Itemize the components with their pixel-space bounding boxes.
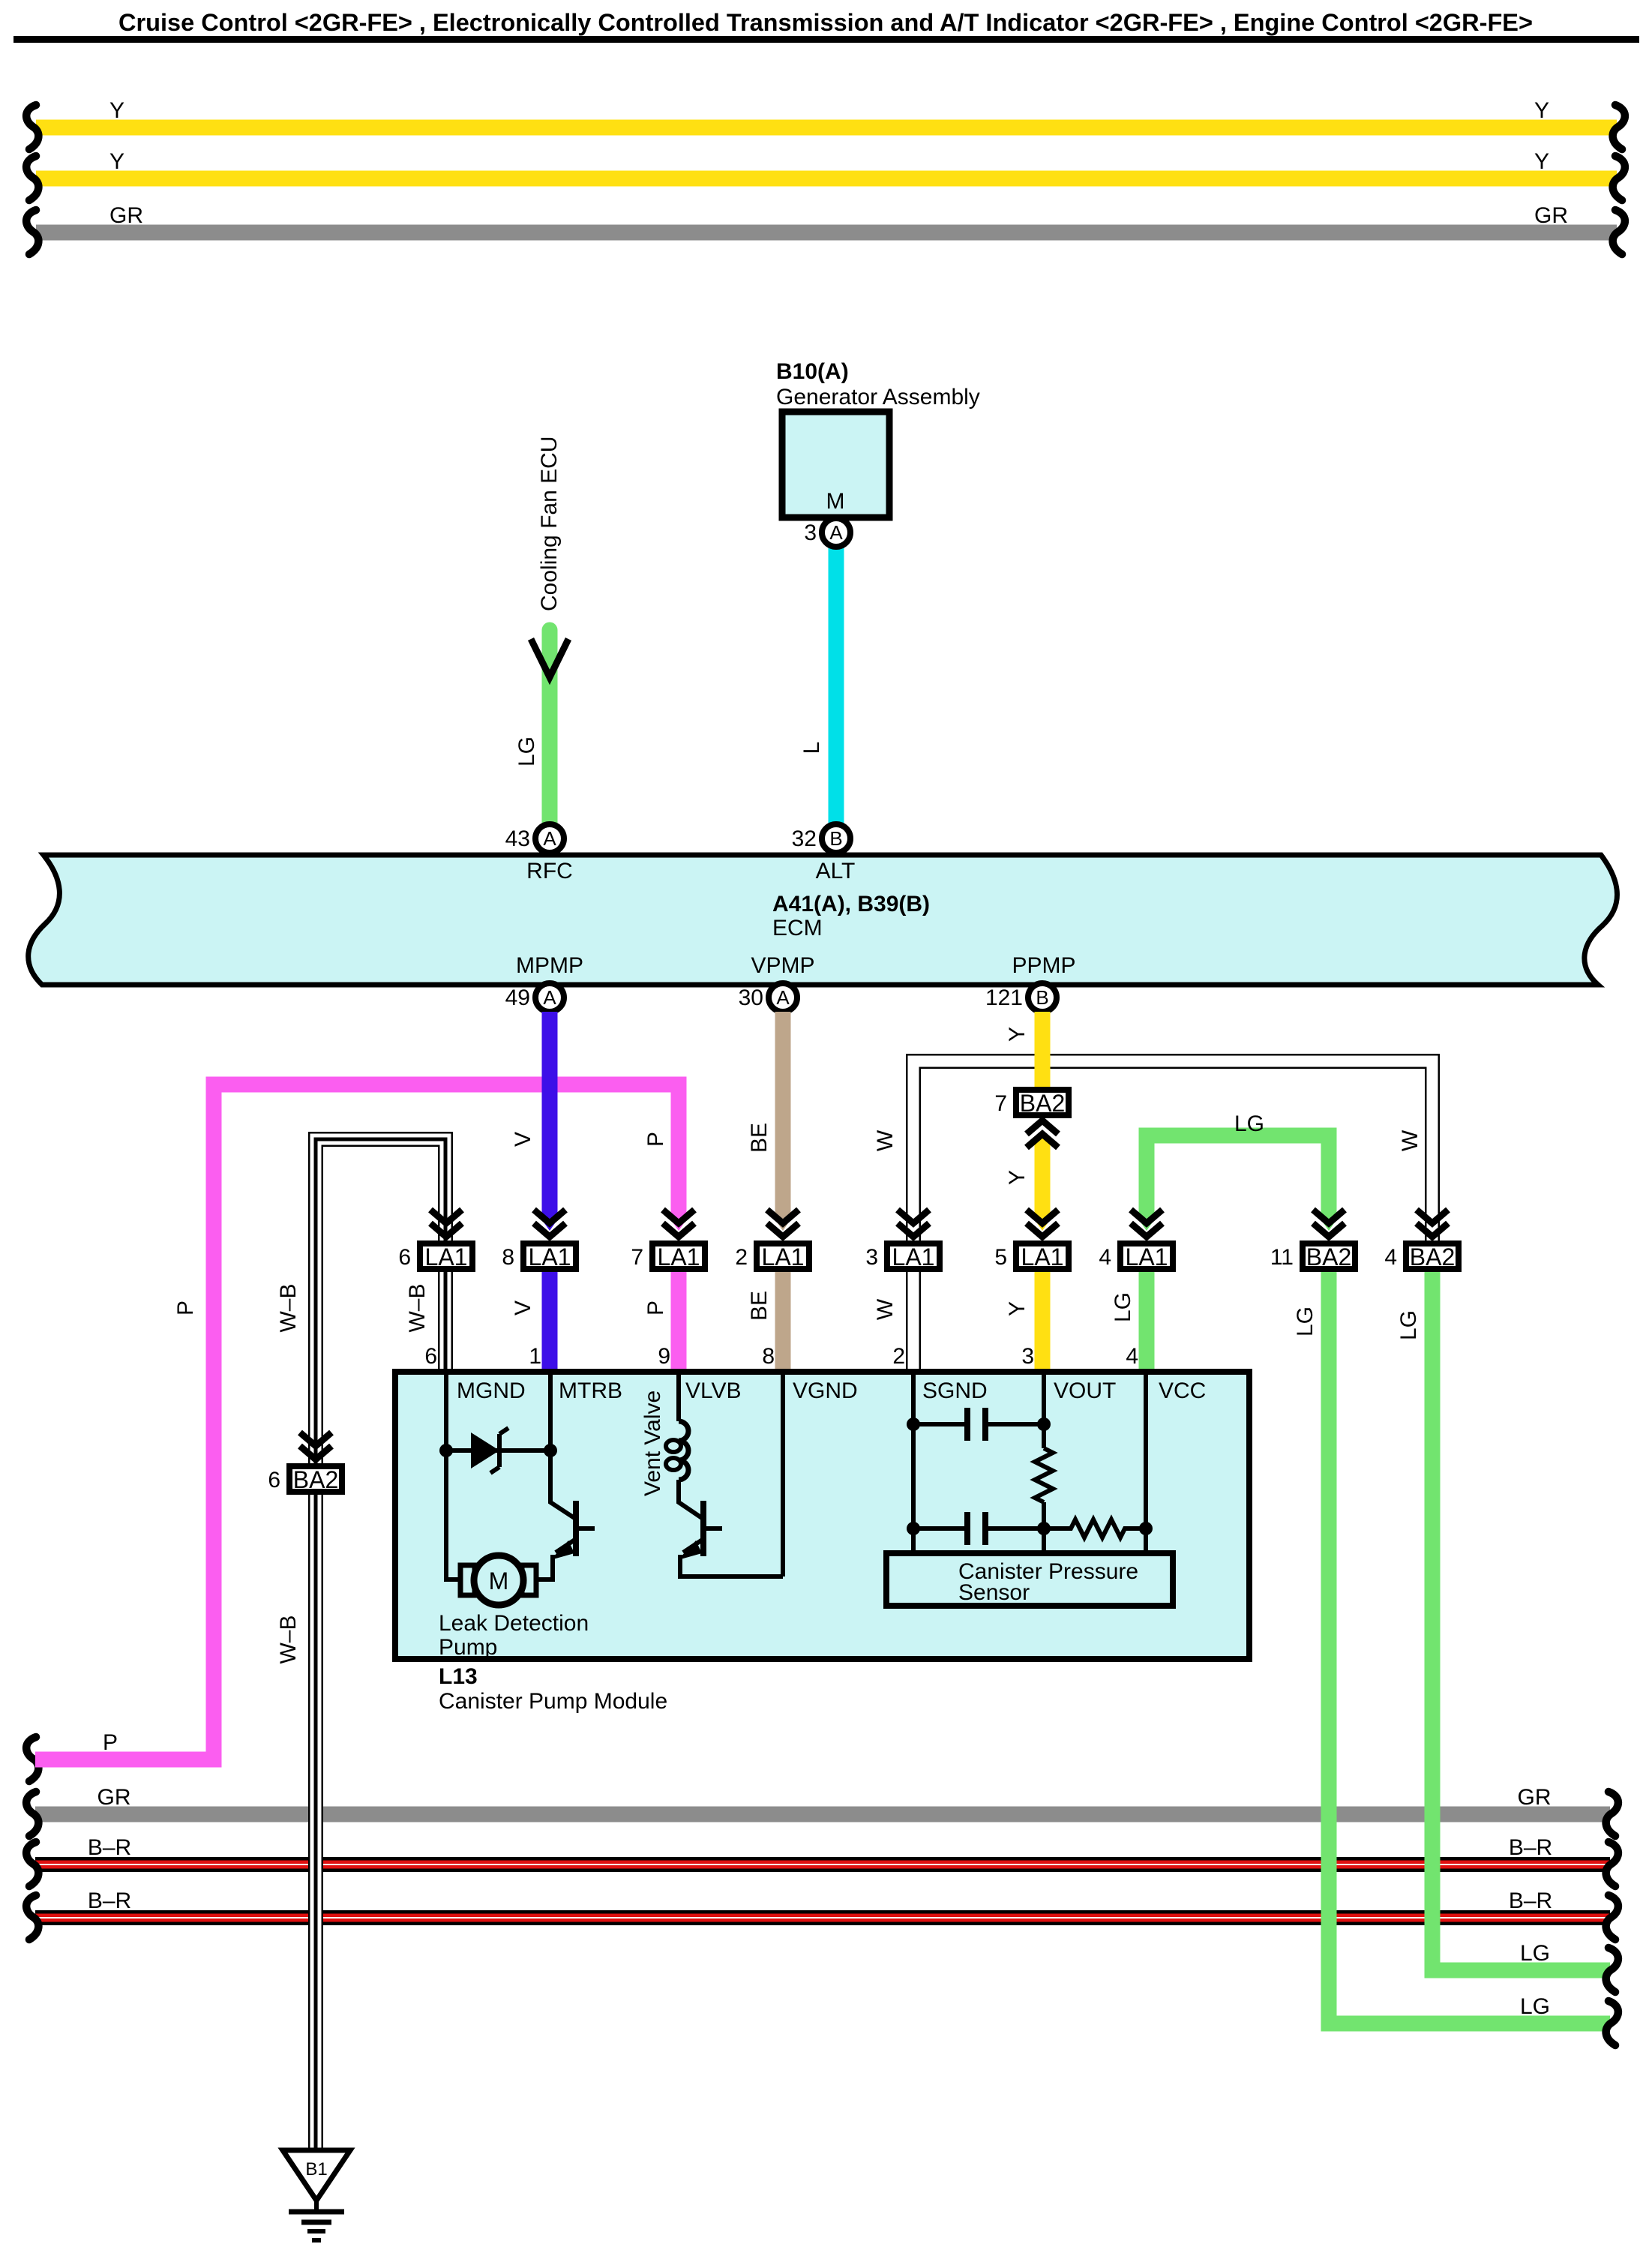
connector 11 BA2 bbox=[1303, 1243, 1355, 1269]
svg-text:Canister Pump Module: Canister Pump Module bbox=[439, 1689, 667, 1714]
transistor Q1 (motor driver) bbox=[573, 1501, 579, 1556]
svg-text:BA2: BA2 bbox=[1020, 1090, 1065, 1117]
leak detection pump motor M bbox=[460, 1565, 475, 1595]
svg-text:Leak Detection: Leak Detection bbox=[439, 1611, 589, 1636]
svg-text:P: P bbox=[103, 1730, 118, 1755]
svg-text:B: B bbox=[829, 827, 842, 850]
svg-text:6: 6 bbox=[424, 1344, 437, 1369]
svg-text:VLVB: VLVB bbox=[685, 1378, 742, 1403]
svg-text:121: 121 bbox=[985, 985, 1023, 1010]
svg-text:LG: LG bbox=[1520, 1994, 1550, 2019]
svg-text:3: 3 bbox=[1021, 1344, 1034, 1369]
svg-text:Generator Assembly: Generator Assembly bbox=[776, 385, 980, 409]
arrow chevron on cooling fan wire bbox=[531, 639, 568, 677]
junction MGND-diode bbox=[439, 1444, 453, 1457]
svg-text:LA1: LA1 bbox=[425, 1243, 468, 1270]
svg-text:A: A bbox=[543, 827, 556, 850]
svg-text:Y: Y bbox=[109, 149, 124, 174]
break symbol right GR bus bbox=[1613, 210, 1625, 254]
svg-text:2: 2 bbox=[735, 1245, 748, 1270]
svg-text:VGND: VGND bbox=[793, 1378, 858, 1403]
chevron above 8 LA1 bbox=[534, 1210, 565, 1223]
svg-text:5: 5 bbox=[994, 1245, 1007, 1270]
break symbol left P bus bbox=[26, 1737, 38, 1781]
break symbol left Y bus bbox=[26, 105, 38, 149]
wire VLVB internal bbox=[676, 1375, 681, 1421]
svg-text:30: 30 bbox=[739, 985, 763, 1010]
svg-text:MPMP: MPMP bbox=[516, 953, 583, 978]
svg-text:BE: BE bbox=[747, 1291, 772, 1321]
wire Y (yellow) PPMP to VOUT bbox=[1035, 1012, 1051, 1087]
canister pump module L13 box bbox=[395, 1372, 1249, 1659]
junction SGND cap1 bbox=[907, 1417, 920, 1431]
svg-text:W–B: W–B bbox=[276, 1615, 301, 1663]
svg-text:Cooling Fan ECU: Cooling Fan ECU bbox=[537, 436, 562, 611]
junction VOUT resistor row bbox=[1037, 1522, 1051, 1535]
svg-text:MTRB: MTRB bbox=[559, 1378, 622, 1403]
svg-text:LA1: LA1 bbox=[529, 1243, 571, 1270]
svg-text:V: V bbox=[511, 1132, 535, 1147]
svg-text:W: W bbox=[1398, 1129, 1423, 1151]
break symbol left Y bus bbox=[26, 156, 38, 200]
wire LG from 4 BA2 to bottom bus bbox=[1432, 1272, 1610, 1970]
svg-text:LA1: LA1 bbox=[892, 1243, 935, 1270]
svg-text:11: 11 bbox=[1270, 1245, 1294, 1270]
svg-text:GR: GR bbox=[97, 1785, 131, 1810]
svg-text:Sensor: Sensor bbox=[958, 1580, 1030, 1605]
connector 6 BA2 bbox=[289, 1466, 342, 1492]
wire W below 3 LA1 bbox=[906, 1272, 921, 1375]
svg-text:P: P bbox=[173, 1300, 198, 1315]
svg-text:Y: Y bbox=[1534, 98, 1549, 123]
svg-text:B1: B1 bbox=[305, 2159, 327, 2179]
svg-text:RFC: RFC bbox=[526, 859, 573, 883]
svg-text:M: M bbox=[826, 489, 845, 514]
transistor Q2 (vent valve driver) bbox=[700, 1501, 706, 1556]
connector 7 BA2 bbox=[1016, 1090, 1069, 1115]
svg-text:B: B bbox=[1036, 986, 1048, 1009]
chevron above 4 LA1 bbox=[1131, 1210, 1162, 1223]
generator assembly B10(A) box bbox=[782, 412, 889, 517]
connector pin 49 (A) MPMP bbox=[535, 983, 564, 1012]
svg-text:BA2: BA2 bbox=[293, 1466, 338, 1493]
svg-text:A: A bbox=[829, 521, 843, 544]
connector pin 30 (A) VPMP bbox=[769, 983, 797, 1012]
wire diode link bbox=[446, 1448, 550, 1453]
wire P (pink) routing: bus to VLVB bbox=[35, 1084, 679, 1759]
chevron below 7 BA2 bbox=[1027, 1120, 1058, 1134]
connector pin 43 (A) RFC bbox=[535, 824, 564, 853]
wire bus Y top-1 bbox=[36, 120, 1617, 136]
connector 3 LA1 bbox=[887, 1243, 940, 1269]
svg-text:4: 4 bbox=[1099, 1245, 1111, 1270]
svg-text:VOUT: VOUT bbox=[1054, 1378, 1116, 1403]
chevron above 6 BA2 bbox=[300, 1432, 331, 1446]
svg-text:LG: LG bbox=[1520, 1941, 1550, 1966]
svg-text:3: 3 bbox=[865, 1245, 878, 1270]
svg-text:LG: LG bbox=[1293, 1306, 1318, 1336]
svg-text:GR: GR bbox=[109, 203, 143, 228]
connector 2 LA1 bbox=[757, 1243, 809, 1269]
svg-text:8: 8 bbox=[762, 1344, 775, 1369]
svg-text:ECM: ECM bbox=[772, 916, 823, 940]
wire LG from 11 BA2 to bottom bus bbox=[1329, 1272, 1610, 2023]
svg-text:BA2: BA2 bbox=[1306, 1243, 1351, 1270]
svg-text:B–R: B–R bbox=[1509, 1888, 1552, 1913]
svg-text:L: L bbox=[799, 742, 824, 754]
svg-text:MGND: MGND bbox=[457, 1378, 526, 1403]
svg-text:LG: LG bbox=[1234, 1111, 1264, 1136]
wire V (violet) MPMP to MTRB bbox=[542, 1012, 558, 1219]
wire bus GR top bbox=[36, 225, 1617, 241]
svg-text:LG: LG bbox=[1111, 1292, 1135, 1322]
svg-text:2: 2 bbox=[892, 1344, 905, 1369]
svg-text:ALT: ALT bbox=[816, 859, 856, 883]
svg-text:P: P bbox=[643, 1300, 668, 1315]
wire W loop SGND to 4 BA2 bbox=[913, 1061, 1432, 1240]
chevron above 3 LA1 bbox=[898, 1210, 929, 1223]
capacitor C1 bbox=[913, 1422, 1044, 1426]
connector pin 3 (A) generator bbox=[822, 518, 850, 547]
junction VCC resistor row bbox=[1139, 1522, 1153, 1535]
capacitor C2 bbox=[913, 1526, 1044, 1531]
svg-text:V: V bbox=[511, 1300, 535, 1315]
svg-text:LA1: LA1 bbox=[1021, 1243, 1064, 1270]
svg-text:VCC: VCC bbox=[1159, 1378, 1206, 1403]
wire VGND internal bbox=[781, 1375, 785, 1576]
svg-text:LA1: LA1 bbox=[762, 1243, 805, 1270]
zener diode bbox=[471, 1432, 499, 1468]
svg-text:Y: Y bbox=[109, 98, 124, 123]
connector 6 LA1 bbox=[420, 1243, 472, 1269]
svg-text:W–B: W–B bbox=[276, 1283, 301, 1332]
connector 7 LA1 bbox=[652, 1243, 705, 1269]
junction MTRB-diode bbox=[544, 1444, 557, 1457]
svg-text:6: 6 bbox=[398, 1245, 411, 1270]
svg-text:49: 49 bbox=[505, 985, 530, 1010]
svg-text:W–B: W–B bbox=[405, 1283, 430, 1332]
svg-text:A: A bbox=[776, 986, 790, 1009]
svg-text:A: A bbox=[543, 986, 556, 1009]
svg-text:6: 6 bbox=[268, 1468, 280, 1492]
svg-text:32: 32 bbox=[792, 826, 817, 851]
svg-text:B10(A): B10(A) bbox=[776, 359, 849, 384]
svg-text:W: W bbox=[873, 1298, 898, 1320]
svg-text:1: 1 bbox=[529, 1344, 541, 1369]
chevron above 2 LA1 bbox=[767, 1210, 799, 1223]
chevron above 7 LA1 bbox=[663, 1210, 694, 1223]
svg-text:B–R: B–R bbox=[88, 1888, 131, 1913]
svg-text:LG: LG bbox=[514, 736, 539, 766]
svg-text:VPMP: VPMP bbox=[751, 953, 814, 978]
canister pressure sensor internals bbox=[911, 1375, 916, 1553]
chevron above 5 LA1 bbox=[1027, 1210, 1058, 1223]
svg-text:B–R: B–R bbox=[88, 1835, 131, 1860]
wire LG from cooling fan ECU (green) bbox=[542, 630, 558, 838]
resistor horizontal bbox=[1044, 1519, 1146, 1537]
title rule bbox=[13, 36, 1639, 43]
wire MTRB internal bbox=[550, 1375, 574, 1518]
connector 4 LA1 bbox=[1120, 1243, 1173, 1269]
svg-text:L13: L13 bbox=[439, 1664, 478, 1689]
wire MGND internal bbox=[446, 1375, 462, 1579]
svg-text:LA1: LA1 bbox=[1126, 1243, 1168, 1270]
svg-text:4: 4 bbox=[1384, 1245, 1397, 1270]
canister pressure sensor box bbox=[886, 1553, 1173, 1606]
junction VOUT cap1 bbox=[1037, 1417, 1051, 1431]
wire W-B below 6 LA1 to pin 6 bbox=[438, 1272, 453, 1375]
chevron above 11 BA2 bbox=[1313, 1210, 1345, 1223]
resistor vertical bbox=[1035, 1448, 1053, 1502]
connector pin 121 (B) PPMP bbox=[1028, 983, 1057, 1012]
svg-text:Vent Valve: Vent Valve bbox=[640, 1390, 665, 1496]
svg-text:Y: Y bbox=[1534, 149, 1549, 174]
connector 5 LA1 bbox=[1016, 1243, 1069, 1269]
wire bus B-R 2 bbox=[35, 1910, 1610, 1925]
svg-text:43: 43 bbox=[505, 826, 530, 851]
svg-text:LG: LG bbox=[1396, 1310, 1421, 1340]
svg-text:4: 4 bbox=[1126, 1344, 1138, 1369]
wire bus Y top-2 bbox=[36, 171, 1617, 187]
break symbol left GR bus bbox=[26, 210, 38, 254]
break symbol right LG bus 1 bbox=[1606, 1948, 1618, 1992]
connector pin 32 (B) ALT bbox=[822, 824, 850, 853]
svg-text:M: M bbox=[489, 1567, 509, 1594]
wire bus B-R 1 bbox=[35, 1857, 1610, 1872]
svg-text:Y: Y bbox=[1005, 1301, 1030, 1316]
junction SGND cap2 bbox=[907, 1522, 920, 1535]
wire bus GR bottom bbox=[35, 1807, 1610, 1822]
break symbol right Y bus bbox=[1613, 105, 1625, 149]
ECM box A41(A),B39(B) bbox=[28, 855, 1618, 985]
svg-text:GR: GR bbox=[1518, 1785, 1552, 1810]
vent valve coil bbox=[679, 1421, 688, 1480]
svg-text:8: 8 bbox=[502, 1245, 514, 1270]
svg-text:Y: Y bbox=[1005, 1027, 1030, 1042]
break symbol right Y bus bbox=[1613, 156, 1625, 200]
connector 8 LA1 bbox=[523, 1243, 576, 1269]
svg-text:Cruise Control <2GR-FE> , Elec: Cruise Control <2GR-FE> , Electronically… bbox=[118, 9, 1533, 36]
svg-text:A41(A), B39(B): A41(A), B39(B) bbox=[772, 892, 930, 916]
svg-text:Y: Y bbox=[1005, 1170, 1030, 1185]
svg-text:W: W bbox=[873, 1129, 898, 1151]
chevron above 4 BA2 bbox=[1417, 1210, 1448, 1223]
svg-text:B–R: B–R bbox=[1509, 1835, 1552, 1860]
svg-text:BE: BE bbox=[747, 1123, 772, 1153]
svg-text:SGND: SGND bbox=[922, 1378, 988, 1403]
svg-text:BA2: BA2 bbox=[1410, 1243, 1455, 1270]
svg-text:P: P bbox=[643, 1132, 668, 1147]
svg-text:7: 7 bbox=[994, 1091, 1007, 1116]
ground B1 bbox=[283, 2150, 350, 2200]
svg-text:3: 3 bbox=[804, 520, 817, 545]
connector 4 BA2 bbox=[1406, 1243, 1459, 1269]
wire W-B loop from 6 LA1 to 6 BA2 bbox=[316, 1139, 445, 1463]
wire L from generator (cyan) bbox=[829, 536, 844, 838]
svg-text:Pump: Pump bbox=[439, 1635, 497, 1660]
svg-text:9: 9 bbox=[658, 1344, 670, 1369]
wire BE (beige) VPMP to VGND bbox=[775, 1012, 791, 1219]
wire LG loop VCC to 11 BA2 bbox=[1147, 1135, 1329, 1219]
break symbol right LG bus 2 bbox=[1606, 2001, 1618, 2045]
svg-text:LA1: LA1 bbox=[658, 1243, 700, 1270]
wire W-B from 6 BA2 down to ground B1 bbox=[308, 1495, 323, 2150]
svg-text:PPMP: PPMP bbox=[1012, 953, 1075, 978]
chevron above 6 LA1 bbox=[430, 1210, 462, 1223]
svg-text:7: 7 bbox=[631, 1245, 643, 1270]
svg-text:GR: GR bbox=[1534, 203, 1568, 228]
